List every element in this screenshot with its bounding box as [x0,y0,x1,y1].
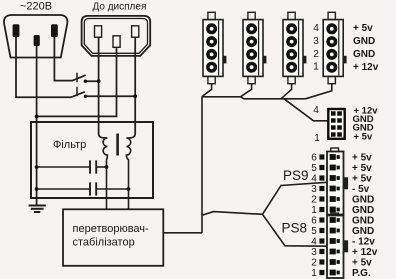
svg-text:+ 12v: + 12v [353,62,379,73]
svg-text:стабілізатор: стабілізатор [73,237,135,249]
wire: branch to aux connector [284,99,328,121]
svg-text:+ 12v: + 12v [352,247,378,258]
wire: harness branch to PS fan vertex [202,212,263,216]
labels aux connector [353,106,379,143]
plug prong L [13,24,20,37]
AC mains plug ~220В [4,15,67,58]
connector PS8 pins [319,217,339,275]
node C1 right [105,165,109,169]
svg-text:4: 4 [311,236,317,247]
svg-text:3: 3 [313,36,319,47]
plug prong N [51,24,58,37]
outlet slot earth [113,36,120,48]
wire: switch bottom output across to outlet N wire [87,95,135,97]
svg-text:P.G.: P.G. [352,268,371,279]
filter box [31,122,153,198]
svg-text:GND: GND [353,36,375,47]
svg-text:3: 3 [311,247,317,258]
capacitor C2 plates [90,182,96,195]
connector PS9 pins [319,154,339,212]
svg-text:До дисплея: До дисплея [93,2,147,13]
drive power connector X3 [283,12,306,83]
svg-text:GND: GND [352,205,374,216]
svg-text:1: 1 [311,268,317,279]
connector PS8 latch [344,240,349,252]
svg-text:+ 5v: + 5v [354,132,373,143]
capacitor C2 wire [37,188,90,190]
capacitor C1 wire [37,166,90,168]
switch SA1 bottom lever [70,92,85,98]
svg-text:+ 5v: + 5v [352,258,372,269]
wire: converter output [163,232,202,234]
outlet slot N [132,26,139,37]
connector PS9 top tab [331,148,339,152]
svg-text:6: 6 [311,215,317,226]
ground [29,206,46,213]
wire: plug N prong down to switch top pole feed [54,37,72,81]
node: switch output to outlet N junction [133,94,137,98]
switch SA1 coupling link [76,73,78,99]
wire: fan branch to PS8 [263,214,327,246]
svg-text:5: 5 [311,163,317,174]
wire: switch top output to node then down into filter [87,81,99,134]
common-mode choke right winding [126,134,135,210]
aux connector pins [331,111,342,136]
svg-text:1: 1 [313,62,319,73]
svg-text:- 12v: - 12v [352,237,375,248]
svg-text:PS8: PS8 [282,221,308,236]
pin numbers aux connector [313,105,320,144]
svg-text:GND: GND [352,195,374,206]
svg-text:GND: GND [353,49,375,60]
svg-text:4: 4 [313,23,319,34]
node: earth tee junction [35,115,39,119]
capacitor C1 plates [90,160,96,173]
switch SA1 top lever [72,75,86,81]
capacitor C1 wire to left lead [97,166,107,168]
common-mode choke left winding [99,134,108,210]
wire: stub connector X1 [202,84,212,97]
converter-stabilizer box [63,209,163,265]
node: switch output to outlet L junction [97,79,101,83]
svg-text:+ 5v: + 5v [352,174,372,185]
wire: stub connector X2 [241,84,252,97]
svg-text:+ 5v: + 5v [353,23,373,34]
drive power connector X2 [243,12,266,83]
wire: stub connector X3 [281,84,292,99]
labels PS9 [352,153,374,217]
wire: outlet slot L down to switch top output node [98,37,100,81]
wire: fan branch to PS9 [263,182,327,214]
node C1 left [35,165,39,169]
node C2 left [35,187,39,191]
outlet slot L [95,26,102,37]
aux connector body [328,109,344,139]
pin numbers PS9 [311,152,317,216]
pin numbers PS8 [311,215,317,278]
svg-text:2: 2 [311,194,317,205]
wire: drive connector bus [202,97,306,99]
labels connector X4 [353,23,379,73]
connector PS9 body [327,152,344,215]
svg-text:2: 2 [311,257,317,268]
svg-text:3: 3 [311,184,317,195]
AC outlet to display (IEC) outer shell [82,16,151,56]
wire: outlet earth slot down and left to earth line [37,48,117,117]
connector PS9 bottom tab [331,213,339,216]
wire: stub connector X4 [306,84,332,99]
node C2 right [127,187,131,191]
svg-text:GND: GND [352,226,374,237]
svg-text:2: 2 [313,49,319,60]
svg-text:Фільтр: Фільтр [53,139,86,151]
svg-text:PS9: PS9 [283,168,309,183]
svg-text:GND: GND [352,216,374,227]
svg-text:+ 5v: + 5v [352,153,372,164]
labels PS8 [352,216,378,279]
switch SA1 bottom contact [84,95,87,98]
wire: outlet slot N down to switch bottom output node [134,37,136,96]
svg-text:6: 6 [311,152,317,163]
svg-text:4: 4 [311,173,317,184]
svg-text:1: 1 [314,133,320,144]
choke core [116,134,119,156]
plug prong earth [34,35,40,46]
svg-text:5: 5 [311,226,317,237]
connector PS9 latch [344,177,349,189]
wire: plug L prong down to switch bottom pole feed [16,37,71,97]
AC outlet inner shell [84,19,147,54]
switch SA1 top contact [84,80,87,83]
wire: N line down into filter [134,96,136,134]
svg-text:4: 4 [313,105,319,116]
wire: main harness vertical [201,97,203,233]
svg-text:- 5v: - 5v [352,184,370,195]
pin numbers connector X4 [313,23,319,73]
svg-text:перетворювач-: перетворювач- [73,223,150,235]
capacitor C2 wire to right lead [97,188,129,190]
drive power connector X1 [203,12,226,83]
drive power connector X4 [323,12,346,83]
svg-text:1: 1 [311,205,317,216]
wire: plug earth prong down to ground line [36,46,38,205]
svg-text:+ 5v: + 5v [352,163,372,174]
connector PS8 body [327,216,344,279]
svg-text:~220В: ~220В [20,1,52,13]
